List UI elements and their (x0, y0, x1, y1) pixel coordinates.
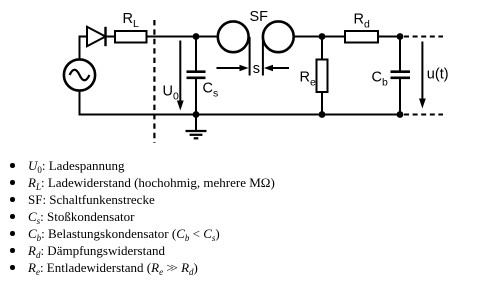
wire: R_e top branch (321, 37, 323, 60)
svg-text:u(t): u(t) (427, 66, 449, 82)
wire: C_s top branch (195, 37, 197, 72)
wire: dashed output bottom (404, 114, 443, 116)
wire: R_L to left sphere (147, 36, 219, 38)
gap electrode line left (249, 37, 251, 76)
svg-text:RL: RL (123, 11, 139, 30)
node: bottom C_s junction (193, 111, 200, 118)
node: top C_s junction (193, 33, 200, 40)
svg-text:Re: Re (300, 70, 316, 89)
wire: C_b bottom branch (399, 79, 401, 115)
arrow u(t) (419, 42, 426, 109)
svg-text:U0: U0 (163, 84, 179, 103)
diode D (87, 27, 106, 46)
node: C_b bottom junction (397, 111, 404, 118)
wire: right sphere to R_d (294, 36, 346, 38)
wire: source bottom riser (79, 91, 81, 116)
wire: R_e bottom branch (321, 92, 323, 115)
svg-text:Rd: Rd (354, 11, 370, 30)
svg-text:SF: SF (250, 9, 269, 25)
node: C_b top junction (397, 33, 404, 40)
arrow s right (264, 65, 289, 72)
wire: bottom rail (79, 114, 401, 116)
arrow s left (217, 65, 249, 72)
resistor R_e (317, 60, 328, 93)
wire: C_b top branch (399, 37, 401, 72)
svg-text:s: s (253, 61, 260, 77)
svg-text:Cs: Cs (203, 81, 219, 100)
node: R_e bottom junction (319, 111, 326, 118)
resistor R_L (115, 31, 147, 43)
spark gap sphere right (263, 21, 294, 52)
wire: dashed output top (404, 36, 443, 38)
AC source G (64, 59, 95, 90)
wire: top wire source corner to diode (80, 37, 88, 61)
arrow U0 (177, 41, 184, 111)
capacitor C_s (187, 72, 206, 78)
wire: diode to R_L (106, 36, 116, 38)
node: R_e top junction (319, 33, 326, 40)
svg-text:Cb: Cb (372, 70, 388, 89)
capacitor C_b (391, 72, 411, 78)
ground (186, 115, 207, 139)
wire: R_d to C_b node (378, 36, 400, 38)
gap electrode line right (262, 37, 264, 76)
spark gap sphere left (218, 21, 249, 52)
wire: C_s bottom branch (195, 79, 197, 115)
legend list (10, 158, 124, 174)
resistor R_d (345, 31, 378, 43)
dashed boundary line (153, 20, 155, 143)
